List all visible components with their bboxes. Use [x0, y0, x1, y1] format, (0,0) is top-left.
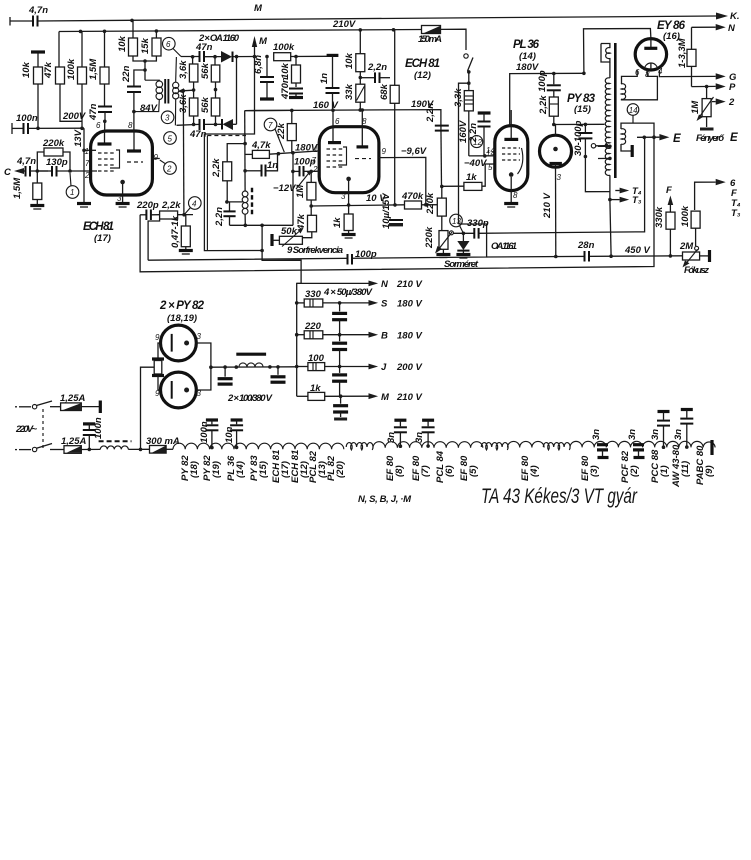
svg-text:9: 9: [154, 153, 159, 162]
capacitor 100p PY83: [537, 70, 561, 97]
heater coil 1 (loops): [346, 443, 373, 450]
wire 190V down to junction: [440, 124, 443, 186]
tube PY83: [540, 135, 572, 167]
trimmer 30-100p: [573, 120, 592, 156]
ground 1M: [700, 117, 714, 131]
svg-text:68k: 68k: [379, 83, 390, 100]
resistor 100 + J row: [297, 353, 423, 373]
svg-text:50k: 50k: [281, 226, 298, 237]
svg-text:100k: 100k: [273, 42, 295, 53]
wire pin8 from above: [361, 110, 363, 127]
junction dots rail2: [79, 30, 83, 34]
svg-text:2,2k: 2,2k: [211, 158, 222, 178]
svg-text:47n: 47n: [195, 42, 213, 53]
svg-text:4: 4: [192, 200, 197, 209]
resistor 1k + M row: [297, 383, 423, 403]
svg-text:1,25A: 1,25A: [60, 393, 85, 404]
svg-text:100k: 100k: [680, 205, 691, 227]
capacitor 3n a: [386, 420, 407, 448]
circle 13: [450, 214, 464, 233]
capacitor 10u/15V electrolytic: [381, 193, 403, 229]
svg-text:2 × PY 82: 2 × PY 82: [159, 300, 205, 312]
svg-text:3n: 3n: [386, 432, 397, 443]
input C arrow: [4, 167, 25, 178]
wire rail2 after fuse: [441, 29, 467, 50]
svg-text:2M: 2M: [679, 241, 694, 252]
line 450V long: [148, 224, 487, 260]
wire 330p to OA1161 box: [479, 139, 645, 233]
fuse 1,25A lower: [50, 436, 100, 453]
svg-text:180 V: 180 V: [397, 331, 422, 342]
wire 10V line: [311, 205, 404, 206]
wire tap to transformer: [178, 88, 194, 93]
capacitor 220p: [136, 200, 160, 220]
svg-text:1,25A: 1,25A: [61, 436, 86, 447]
capacitor 28n: [577, 240, 595, 262]
resistor 10k: [344, 30, 365, 84]
wire 160V line left end: [245, 109, 292, 111]
svg-text:100n: 100n: [199, 421, 210, 443]
capacitor 22n: [121, 61, 147, 131]
wire pin3 to 10V: [348, 193, 350, 205]
capacitor filter 1: [218, 367, 233, 384]
svg-text:13V: 13V: [73, 129, 84, 147]
svg-text:160 V: 160 V: [313, 100, 338, 111]
circle 12: [471, 136, 483, 148]
capacitor 3n b: [414, 420, 435, 448]
svg-text:1k: 1k: [310, 383, 321, 394]
svg-text:200V: 200V: [62, 111, 86, 122]
resistor 10k: [21, 52, 45, 128]
svg-text:ECH 81: ECH 81: [405, 58, 440, 70]
svg-text:10n: 10n: [224, 426, 235, 443]
svg-text:10k: 10k: [117, 35, 128, 52]
svg-text:200 V: 200 V: [396, 362, 422, 373]
svg-text:4,7k: 4,7k: [251, 140, 271, 151]
arrow M up: [252, 36, 268, 47]
svg-text:1n: 1n: [319, 73, 330, 84]
wire boost left branch: [459, 83, 469, 224]
flyback top winding: [601, 44, 610, 63]
svg-text:30-100p: 30-100p: [573, 120, 584, 156]
svg-text:(15): (15): [574, 104, 591, 115]
svg-text:9: 9: [155, 333, 160, 342]
svg-text:210 V: 210 V: [542, 193, 553, 219]
wire PY83 coupling line: [554, 123, 605, 125]
svg-text:15k: 15k: [140, 37, 151, 54]
svg-text:330k: 330k: [654, 206, 665, 228]
capacitor 6,8n: [253, 55, 274, 99]
svg-text:(8): (8): [394, 465, 405, 477]
svg-text:S: S: [381, 299, 388, 310]
wire bus feedback up: [292, 153, 294, 226]
wire pin14 PL36: [469, 155, 495, 157]
switch upper: [15, 401, 52, 409]
svg-text:470k: 470k: [401, 191, 424, 202]
wire disc top row: [181, 56, 199, 58]
450V line: [487, 256, 683, 257]
diode OA1160 top: [221, 51, 255, 63]
svg-text:6: 6: [335, 117, 340, 126]
resistor 3,3k: [453, 88, 473, 156]
potentiometer 2M focus: [679, 241, 710, 267]
capacitor 330p: [454, 218, 489, 239]
capacitor 100n mains: [83, 417, 104, 449]
capacitor 10n heater: [224, 420, 243, 449]
svg-text:6: 6: [96, 121, 101, 130]
svg-text:100p: 100p: [355, 249, 377, 260]
capacitor 47n screen: [88, 103, 112, 131]
svg-text:E: E: [730, 132, 738, 144]
capacitor filter 2: [271, 367, 286, 382]
svg-text:F: F: [666, 185, 672, 196]
junction 330p: [462, 232, 466, 236]
svg-text:47k: 47k: [296, 213, 307, 231]
flyback taps: [598, 145, 612, 161]
wire bus down tap: [261, 225, 263, 250]
svg-text:J: J: [381, 362, 387, 373]
wire to 1k PL36: [442, 185, 464, 187]
svg-text:8: 8: [128, 121, 133, 130]
resistor 2,2k osc: [211, 158, 232, 202]
osc cathode bus: [230, 224, 294, 226]
resistor 1M: [295, 171, 316, 215]
PY82 plate wires: [196, 343, 211, 390]
svg-text:(3): (3): [589, 465, 600, 477]
svg-text:2 × 100/380 V: 2 × 100/380 V: [227, 393, 273, 404]
switch gang dashes: [42, 409, 44, 448]
capacitor 2,2n PL36 grid: [468, 113, 491, 156]
PY82 heater series connector: [152, 343, 164, 390]
circle 5: [164, 132, 177, 145]
capacitor 3n AW above: [673, 410, 693, 449]
capacitor 4,7n input: [16, 156, 48, 177]
svg-text:3n: 3n: [673, 429, 684, 440]
resistor 220k feedback: [37, 138, 70, 171]
flyback core: [614, 43, 617, 178]
rail vertical: [297, 283, 301, 396]
capacitor 100p grid (12): [293, 157, 319, 177]
capacitor 2,2n osc: [214, 202, 236, 227]
svg-text:M: M: [254, 3, 263, 14]
svg-text:(5): (5): [468, 465, 479, 477]
fuse 150mA: [418, 26, 442, 46]
svg-text:0,47-1k: 0,47-1k: [170, 215, 181, 248]
ECH81(17) internals: [98, 131, 144, 195]
svg-text:ECH 81: ECH 81: [83, 221, 114, 233]
flyback right filament winding EY86: [621, 70, 657, 100]
capacitor 1n osc: [245, 154, 278, 177]
svg-text:10µ/15V: 10µ/15V: [381, 193, 392, 229]
feedback loop left: [140, 137, 654, 272]
svg-text:T₃: T₃: [632, 195, 642, 206]
svg-text:3n: 3n: [627, 429, 638, 440]
svg-text:210V: 210V: [332, 19, 356, 30]
capacitor 3n EF80(3) feedthrough: [591, 429, 609, 458]
wire rail1 K line: [10, 20, 33, 22]
svg-text:T₃: T₃: [731, 208, 741, 219]
svg-text:2: 2: [166, 165, 172, 174]
capacitor 100n heater: [199, 420, 218, 449]
circle 1: [66, 173, 79, 198]
wire PY83 cathode down 210V: [555, 167, 557, 256]
svg-text:47n: 47n: [88, 103, 99, 121]
resistor 2,2k PY83: [538, 95, 558, 125]
svg-text:1k: 1k: [466, 172, 477, 183]
resistor 56k lower: [200, 96, 220, 124]
svg-text:(4): (4): [529, 465, 540, 477]
svg-text:(2): (2): [629, 465, 640, 477]
flyback right winding E: [621, 123, 654, 157]
svg-text:9 Sorfrekvencia: 9 Sorfrekvencia: [287, 245, 343, 256]
svg-text:(11): (11): [680, 461, 691, 477]
svg-text:33k: 33k: [344, 83, 355, 100]
svg-text:100k: 100k: [66, 58, 77, 80]
svg-text:100n: 100n: [93, 417, 104, 439]
resistor 100k video: [273, 42, 327, 61]
svg-text:(14): (14): [519, 51, 536, 62]
capacitor B: [332, 335, 347, 367]
oscillator coil: [242, 188, 252, 226]
circle 6: [163, 37, 182, 56]
capacitor 2,2n (190V): [425, 103, 449, 131]
svg-text:(18): (18): [189, 461, 200, 478]
svg-text:4,7n: 4,7n: [16, 156, 36, 167]
svg-text:100p: 100p: [294, 157, 316, 168]
resistor 330k: [654, 206, 675, 256]
capacitor 130p: [39, 157, 97, 177]
svg-text:220p: 220p: [136, 200, 159, 211]
resistor 470k: [401, 191, 442, 209]
svg-text:3: 3: [557, 173, 562, 182]
svg-text:1,5M: 1,5M: [12, 177, 23, 199]
svg-text:3n: 3n: [414, 432, 425, 443]
ECH81(12) internals: [327, 127, 372, 193]
svg-text:1M: 1M: [690, 100, 701, 114]
arrow N row: [297, 279, 423, 290]
wire right vertical joining diodes: [236, 57, 238, 125]
svg-text:1,5M: 1,5M: [88, 58, 99, 80]
switch boost: [464, 54, 473, 91]
switch lower: [15, 444, 52, 452]
svg-text:3n: 3n: [591, 429, 602, 440]
svg-text:1: 1: [85, 147, 89, 156]
svg-text:−40V: −40V: [464, 158, 487, 169]
arrow K output: [716, 13, 728, 20]
capacitor M: [333, 396, 348, 420]
svg-text:−12V: −12V: [273, 183, 296, 194]
svg-text:(9): (9): [704, 465, 715, 477]
svg-text:K.: K.: [730, 11, 740, 22]
tube PY82 a: [161, 325, 197, 361]
heater bumps segment 1: [173, 443, 344, 449]
wire video takeoff vertical: [182, 91, 185, 215]
svg-text:22n: 22n: [121, 65, 132, 83]
wire cathode tap: [227, 201, 244, 203]
resistor 47k: [43, 32, 82, 122]
arrows T4 T3: [615, 186, 642, 197]
svg-text:1-3,3M: 1-3,3M: [677, 37, 688, 68]
svg-text:22k: 22k: [276, 122, 287, 140]
arrow 6: [695, 178, 736, 210]
circle 4: [184, 197, 201, 215]
svg-text:3: 3: [165, 114, 170, 123]
svg-text:180V: 180V: [516, 62, 539, 73]
svg-text:10k: 10k: [280, 62, 291, 79]
resistor 330 + S row: [297, 289, 423, 310]
svg-text:3,6k: 3,6k: [178, 94, 189, 113]
svg-text:3: 3: [197, 332, 202, 341]
svg-text:Fényerő: Fényerő: [696, 133, 725, 144]
svg-text:14: 14: [629, 106, 638, 115]
svg-text:E: E: [673, 133, 681, 145]
svg-text:2,2k: 2,2k: [161, 200, 181, 211]
resistor 1-3,3M: [677, 27, 696, 86]
diode OA1160 bottom: [222, 119, 237, 130]
svg-text:M: M: [381, 392, 390, 403]
circle 14: [627, 104, 639, 123]
heater bumps segment 3: [508, 441, 545, 447]
svg-text:470n: 470n: [280, 77, 291, 100]
svg-text:210 V: 210 V: [396, 279, 422, 290]
svg-text:3,6k: 3,6k: [178, 60, 189, 79]
tube PY82 b: [161, 372, 197, 408]
junction rail1 to 10k: [130, 19, 134, 23]
svg-text:220k: 220k: [425, 192, 436, 215]
filter line: [211, 366, 297, 368]
svg-text:14: 14: [486, 146, 495, 155]
svg-text:(15): (15): [258, 461, 269, 478]
capacitor 1n with top plate: [319, 55, 340, 110]
svg-text:TA 43 Kékes/3 VT gyár: TA 43 Kékes/3 VT gyár: [481, 485, 638, 508]
svg-text:330: 330: [305, 289, 322, 300]
svg-text:180 V: 180 V: [397, 299, 422, 310]
capacitor 47n top: [195, 42, 213, 62]
PL36 internals: [502, 126, 523, 191]
capacitor 100n input line: [12, 113, 84, 134]
svg-text:−9,6V: −9,6V: [401, 146, 427, 157]
svg-text:P: P: [729, 82, 736, 93]
svg-text:3n: 3n: [650, 429, 661, 440]
arrow -12V measure: [296, 171, 312, 190]
heater end terminal: [710, 440, 713, 455]
wire heater tap: [141, 367, 155, 449]
svg-text:N: N: [381, 279, 389, 290]
svg-text:2: 2: [728, 97, 735, 108]
resistor 15k: [140, 31, 161, 61]
svg-text:84V: 84V: [140, 103, 158, 114]
line M AGC feed: [204, 41, 301, 283]
wire EY86 plate link: [584, 29, 651, 74]
resistor 1,5M grid leak: [12, 171, 44, 209]
heater bumps segment 4: [570, 441, 715, 447]
ground pot: [436, 249, 450, 257]
arrow G: [660, 72, 737, 83]
arrow 2: [712, 97, 735, 108]
trimmer tap: [591, 144, 608, 148]
svg-text:220k: 220k: [42, 138, 65, 149]
svg-text:56k: 56k: [200, 96, 211, 113]
resistor 2,2k: [160, 200, 193, 219]
heater bumps segment 2: [373, 442, 483, 448]
flyback main winding: [605, 62, 610, 200]
tube EY86: [635, 39, 666, 70]
svg-text:N, S, B, J, ·M: N, S, B, J, ·M: [358, 494, 412, 505]
resistor 3,6k lower: [178, 94, 198, 125]
filter choke 2x100/380V: [227, 354, 273, 404]
svg-text:(18,19): (18,19): [167, 313, 197, 324]
svg-text:100: 100: [308, 353, 325, 364]
capacitor 100p series: [348, 249, 377, 265]
svg-text:220: 220: [304, 321, 322, 332]
wire -9,6V pin9 line: [379, 157, 426, 204]
capacitor S: [332, 303, 347, 335]
capacitor 4,7n series on rail1: [33, 16, 38, 27]
circle 7: [264, 118, 284, 152]
wire osc vertical trunk: [244, 111, 246, 191]
pin 9 wire: [152, 158, 159, 160]
svg-text:1: 1: [70, 188, 74, 197]
wire trimmer down: [585, 157, 610, 192]
arrow F up: [666, 185, 673, 212]
resistor 3,6k upper: [178, 57, 198, 98]
svg-text:2,2k: 2,2k: [538, 95, 549, 115]
svg-text:PABC 80: PABC 80: [695, 445, 706, 485]
svg-text:C: C: [4, 167, 11, 178]
svg-text:OA 1161: OA 1161: [491, 241, 517, 252]
wire PY83 top: [554, 125, 556, 136]
svg-text:2: 2: [84, 171, 90, 180]
wire rail2 210V line: [59, 30, 421, 32]
svg-text:1n: 1n: [267, 160, 278, 171]
svg-text:1k: 1k: [332, 217, 343, 228]
svg-text:Fókusz: Fókusz: [684, 265, 709, 276]
svg-text:56k: 56k: [200, 62, 211, 79]
svg-text:2,2n: 2,2n: [214, 207, 225, 227]
svg-text:2,2n: 2,2n: [367, 62, 387, 73]
svg-text:450 V: 450 V: [624, 245, 650, 256]
resistor 100k focus: [680, 205, 700, 246]
heater coil 2 (loops): [481, 443, 508, 450]
resistor 0,47-1k: [170, 215, 193, 254]
bottom disc row 47n: [177, 119, 223, 140]
svg-text:4 × 50µ/380V: 4 × 50µ/380V: [323, 287, 373, 298]
fuse 300mA: [146, 436, 180, 453]
svg-text:28n: 28n: [577, 240, 595, 251]
shield box lines: [206, 136, 208, 251]
circle 3: [161, 111, 174, 124]
resistor 100k: [66, 31, 87, 128]
wire 160V to pin6: [332, 110, 334, 127]
resistor 22k: [276, 110, 296, 154]
capacitor 2,2n coupling: [360, 62, 390, 83]
svg-text:8: 8: [513, 191, 518, 200]
resistor 4,7k: [245, 140, 271, 158]
svg-text:150 mA: 150 mA: [418, 34, 442, 45]
tube PL36: [495, 126, 528, 191]
svg-text:6: 6: [166, 40, 171, 49]
svg-text:100p: 100p: [537, 70, 548, 92]
svg-text:5: 5: [168, 135, 173, 144]
potentiometer 1M brightness: [690, 87, 714, 122]
svg-text:210 V: 210 V: [396, 392, 422, 403]
arrow N: [692, 23, 737, 34]
wire pin1 line 180V: [269, 151, 319, 154]
svg-text:(6): (6): [444, 465, 455, 477]
svg-text:7: 7: [85, 159, 90, 168]
svg-text:N: N: [728, 23, 736, 34]
fuse 1,25A upper: [50, 393, 100, 413]
